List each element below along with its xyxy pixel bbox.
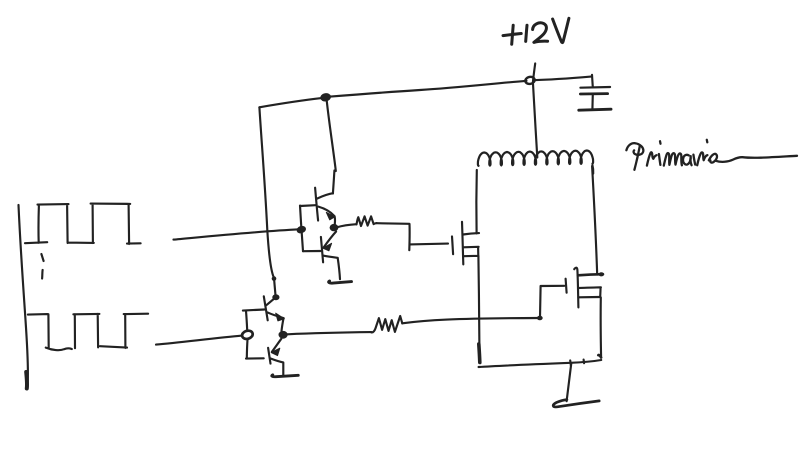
node: lower output — [279, 331, 288, 339]
gate bar — [452, 237, 453, 255]
ground: main stem — [567, 363, 572, 401]
channel bar — [574, 268, 578, 308]
transistor Q2 (PNP, upper driver) — [303, 232, 340, 280]
mosfet M1 (left) — [452, 222, 479, 265]
node: lower input junction circle — [241, 329, 254, 340]
inductor L1: transformer primary winding — [478, 151, 593, 166]
emitter with arrow — [267, 312, 284, 331]
base wire — [243, 310, 265, 311]
wire: long vertical from rail to lower driver collector — [259, 107, 275, 296]
gate bar — [566, 279, 567, 293]
wire: center tap from +12V — [533, 84, 537, 158]
ground: lower driver — [272, 375, 299, 377]
wire: +12V top rail — [259, 77, 591, 108]
source arms — [463, 247, 479, 256]
wire: M1 drain to transformer left end — [475, 170, 478, 233]
emitter with arrow from output node — [324, 232, 337, 248]
wire: bottom input to lower driver bases — [156, 336, 242, 345]
source arms — [578, 287, 601, 297]
collector arm — [266, 297, 276, 305]
collector arm — [317, 193, 333, 198]
transistor Q1 (NPN, upper driver) — [300, 188, 335, 228]
wire: lower bases tie lower — [246, 340, 264, 359]
ground: main bar with curl — [553, 400, 599, 407]
resistor R2 — [371, 316, 402, 332]
node: +12V tap junction loop — [525, 76, 536, 85]
mosfet M2 (right) — [566, 268, 605, 308]
wire: M1 source down to bottom rail — [478, 256, 479, 346]
wire: lower output to R2 — [288, 332, 372, 334]
base wire — [300, 204, 316, 207]
collector — [271, 359, 284, 376]
channel bar — [462, 222, 463, 265]
wire: top input to upper driver bases — [174, 229, 300, 239]
emitter with arrow — [272, 339, 281, 352]
node: kink dot — [272, 276, 277, 281]
drain arm — [578, 274, 603, 275]
label: Primaire — [626, 140, 797, 170]
transistor Q3 (NPN, lower driver) — [243, 296, 284, 331]
base bar — [268, 348, 270, 364]
base bar — [315, 188, 318, 221]
wire: bottom source rail — [479, 360, 602, 367]
node: gate corner tick — [537, 316, 543, 321]
collector — [323, 256, 340, 280]
dashed link between waveforms — [41, 254, 43, 279]
drain arm — [463, 233, 479, 234]
wire: left vertical input line — [19, 205, 28, 389]
wire: +12V stem — [533, 64, 536, 85]
wire: M2 drain to transformer right end — [592, 166, 597, 274]
wire: center vertical from rail dot to upper NPN collector — [327, 100, 336, 172]
wire: upper bases tie — [300, 206, 303, 252]
resistor R1 — [357, 216, 377, 226]
node: upper output — [330, 224, 339, 231]
wire: M2 source down to bottom rail — [600, 297, 603, 357]
node: upper input junction — [296, 225, 307, 235]
base bar — [264, 296, 268, 320]
signal: bottom square wave — [28, 314, 148, 350]
label: +12V — [503, 18, 569, 44]
wire: R1 to M1 gate — [377, 223, 448, 250]
ground: upper driver — [329, 281, 352, 283]
emitter with arrow — [318, 207, 335, 228]
base bar — [321, 237, 323, 262]
wire: R2 to M2 gate — [402, 318, 539, 323]
signal: top square wave — [25, 204, 141, 244]
wire: upper output to R1 — [337, 224, 357, 227]
base wire — [303, 250, 321, 252]
node: junction dot on rail — [320, 92, 332, 102]
transistor Q4 (PNP, lower driver) — [268, 339, 283, 375]
wire: lower bases tie upper — [246, 311, 247, 330]
capacitor C1 — [579, 75, 611, 110]
node: lower NPN collector junction — [272, 294, 279, 300]
